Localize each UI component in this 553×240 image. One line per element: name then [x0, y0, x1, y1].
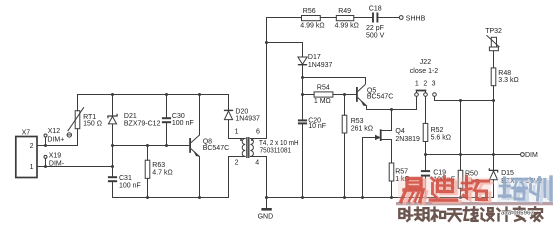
svg-text:150 Ω: 150 Ω [83, 120, 102, 127]
svg-text:2: 2 [235, 159, 239, 166]
node R63 base line [146, 144, 149, 147]
wire R49-C18 [354, 17, 372, 19]
wire J22 pin2 down to R52 [425, 96, 427, 123]
svg-text:1N4937: 1N4937 [308, 62, 333, 69]
wire GND rail left segment [113, 157, 229, 198]
node GND stem [265, 196, 268, 199]
resistor R52 [423, 123, 428, 141]
node R50 bus [459, 99, 462, 102]
wire C19 stem top [425, 155, 427, 171]
wire R50 bottom to GND rail [460, 188, 462, 197]
wire C18-SHHB terminal [378, 17, 399, 19]
wire DIM+ from X7 to RT1 [37, 129, 78, 146]
watermark big characters 培训 blue [500, 177, 552, 200]
svg-text:22 pF: 22 pF [366, 25, 384, 32]
node R48 bottom [492, 99, 495, 102]
ground symbol [261, 208, 271, 211]
svg-text:BC547C: BC547C [367, 94, 393, 101]
wire Q8 emitter to rail [199, 157, 201, 198]
capacitor C18 [373, 13, 377, 23]
wire R56-R49 [320, 17, 336, 19]
wire T4 pin6 stub [250, 138, 266, 140]
wire DIM- from X7 to C31 node [37, 166, 113, 168]
svg-text:1: 1 [30, 164, 34, 171]
svg-text:DIM+: DIM+ [47, 137, 64, 144]
svg-text:TP32: TP32 [485, 28, 502, 35]
resistor R53 [342, 115, 347, 133]
wire Q8 collector to top rail [199, 95, 201, 136]
svg-text:1 MΩ: 1 MΩ [314, 98, 331, 105]
svg-text:T4, 2 x 10 mH: T4, 2 x 10 mH [259, 140, 299, 147]
watermark wash [398, 178, 491, 203]
svg-text:100 nF: 100 nF [172, 120, 194, 127]
node D15 top [492, 153, 495, 156]
node R50 DIM line [459, 153, 462, 156]
svg-text:C18: C18 [369, 6, 382, 13]
resistor R50 [458, 170, 463, 188]
wire C30 bottom to base line [166, 123, 168, 145]
svg-text:10 nF: 10 nF [308, 123, 326, 130]
svg-text:1: 1 [235, 129, 239, 136]
svg-text:4.99 kΩ: 4.99 kΩ [300, 22, 324, 29]
transistor Q4 2N3819 [376, 129, 381, 141]
svg-text:4: 4 [255, 159, 259, 166]
wire R53 stem bottom to GND rail [344, 133, 346, 198]
wire TP32 to R48 [493, 51, 495, 68]
svg-text:2: 2 [30, 143, 34, 150]
jumper J22 [415, 91, 437, 97]
resistor R57 [389, 163, 394, 181]
node Q5 base [343, 93, 346, 96]
svg-text:C31: C31 [119, 175, 132, 182]
svg-text:close 1-2: close 1-2 [410, 68, 439, 75]
node Q4 drain [390, 108, 393, 111]
svg-text:261 kΩ: 261 kΩ [351, 126, 373, 133]
svg-text:R56: R56 [303, 8, 316, 15]
svg-text:4.99 kΩ: 4.99 kΩ [335, 22, 359, 29]
wire D15 bottom to GND rail [493, 180, 495, 198]
wire GND rail right segment [267, 157, 494, 198]
wire RT1 top to top-left rail [78, 95, 229, 111]
wire T4 pin1 stub [229, 138, 246, 140]
svg-text:5.6 kΩ: 5.6 kΩ [431, 135, 451, 142]
svg-text:D15: D15 [501, 170, 514, 177]
diode D20 [224, 110, 233, 119]
watermark slogan row [399, 207, 542, 221]
wire branch to D17 [267, 43, 303, 58]
node C19 rail [424, 196, 427, 199]
wire R53 stem top [344, 95, 346, 116]
node C30 top rail [165, 93, 168, 96]
terminal SHHB [399, 16, 403, 20]
node R50 rail [459, 196, 462, 199]
thermistor RT1 [67, 107, 84, 137]
capacitor C31 [108, 177, 117, 181]
node Q8 collector rail [198, 93, 201, 96]
svg-text:R53: R53 [351, 118, 364, 125]
terminal X19 [44, 155, 47, 158]
node C20 rail [301, 196, 304, 199]
svg-text:2N3819: 2N3819 [395, 136, 420, 143]
svg-text:BZX79-C12: BZX79-C12 [124, 121, 161, 128]
terminal X12 [44, 134, 47, 137]
wire R63 stem top [147, 146, 149, 161]
watermark band [396, 202, 553, 205]
wire T4 pin2 stub [229, 156, 246, 158]
node R57 rail [390, 196, 393, 199]
resistor R63 [145, 160, 150, 178]
svg-text:R54: R54 [317, 84, 330, 91]
wire R57 bottom to GND rail [391, 181, 393, 198]
node DIM- C31 [111, 165, 114, 168]
diode D17 [298, 57, 307, 65]
wire R50 vertical bus to body [460, 101, 462, 171]
node secondary top branch [265, 41, 268, 44]
svg-text:SHHB: SHHB [406, 15, 426, 22]
wire GND stem [266, 198, 268, 209]
watermark big character shadows [405, 179, 493, 204]
node Q4 gate rail [361, 196, 364, 199]
svg-text:3: 3 [432, 80, 436, 87]
connector X7 [16, 137, 37, 178]
resistor R49 [336, 16, 354, 21]
node Q8 emitter rail [198, 196, 201, 199]
wire R52 bottom to DIM line [425, 142, 427, 155]
terminal DIM [521, 153, 525, 157]
wire Q5 collector line [303, 78, 366, 82]
svg-text:D21: D21 [124, 113, 137, 120]
watermark big characters 易迪拓 red [401, 177, 489, 202]
wire R54 left stub [303, 94, 315, 96]
svg-text:X12: X12 [48, 128, 61, 135]
svg-text:1N4937: 1N4937 [235, 115, 260, 122]
transformer T4 [240, 137, 253, 158]
svg-text:2: 2 [423, 80, 427, 87]
node Q5 collector [301, 76, 304, 79]
testpoint TP32 [487, 35, 500, 51]
wire base line D21 to Q8 [113, 145, 190, 147]
svg-text:4.7 kΩ: 4.7 kΩ [152, 169, 172, 176]
wire C19 bottom to GND rail [425, 177, 427, 198]
svg-text:R49: R49 [338, 8, 351, 15]
svg-text:D17: D17 [308, 54, 321, 61]
wire C20 bottom to GND rail [302, 124, 304, 197]
wire T4 pin4 stub [250, 156, 266, 158]
svg-text:1: 1 [415, 80, 419, 87]
wire D21 bottom through base line and DIM- to C31 [112, 124, 114, 176]
node D21 top rail [111, 93, 114, 96]
svg-text:750311081: 750311081 [260, 148, 292, 155]
wire X19 stub [45, 158, 47, 166]
wire J22 pin3 to bus [435, 96, 494, 100]
wire Q5 emitter line to J22 pin1 [367, 96, 417, 109]
wire D17 cathode down through nodes to C20 [302, 65, 304, 119]
node X12 [44, 144, 47, 147]
svg-text:100 nF: 100 nF [119, 183, 141, 190]
zener diode D21 [108, 114, 117, 124]
node C30 base line [165, 144, 168, 147]
svg-text:R63: R63 [152, 162, 165, 169]
node D21 base line [111, 144, 114, 147]
wire Q4 source to R57 [382, 140, 392, 164]
svg-text:500 V: 500 V [366, 33, 385, 40]
node R52 bottom [424, 153, 427, 156]
svg-text:aaa-005963: aaa-005963 [501, 211, 534, 217]
resistor R56 [302, 16, 321, 21]
capacitor C20 [298, 120, 307, 123]
svg-text:Q4: Q4 [395, 128, 404, 135]
svg-text:DIM-: DIM- [49, 161, 65, 168]
svg-text:GND: GND [258, 213, 274, 220]
wire Q4 drain stub [382, 110, 392, 131]
node R54 left [301, 93, 304, 96]
node R63 rail [146, 196, 149, 199]
node X19 [44, 165, 47, 168]
wire R48 bottom through bus to D15 [493, 86, 495, 171]
wire top rail to R56 R49 C18 [267, 18, 302, 139]
svg-text:C30: C30 [172, 113, 185, 120]
svg-text:BC547C: BC547C [203, 145, 229, 152]
zener diode D15 [489, 168, 497, 180]
svg-text:X7: X7 [22, 130, 31, 137]
wire DIM line [426, 154, 521, 156]
transistor Q8 BC547C [190, 135, 199, 157]
svg-text:6: 6 [256, 129, 260, 136]
wire C31 bottom to rail corner [112, 182, 114, 197]
capacitor C19 [421, 171, 430, 176]
wire R63 bottom to rail [147, 178, 149, 197]
transistor Q5 BC547C [357, 78, 367, 110]
resistor R54 [314, 92, 333, 97]
resistor R48 [491, 68, 496, 86]
svg-text:R48: R48 [498, 70, 511, 77]
wire D21 stem top [112, 95, 114, 116]
svg-text:J22: J22 [420, 59, 431, 66]
svg-text:3.3 kΩ: 3.3 kΩ [498, 77, 518, 84]
wire C30 stem from top rail [166, 95, 168, 118]
svg-text:DIM: DIM [525, 152, 538, 159]
node R53 rail [343, 196, 346, 199]
svg-text:X19: X19 [49, 153, 62, 160]
wire Q4 gate to GND rail [363, 138, 380, 198]
svg-text:R57: R57 [395, 169, 408, 176]
svg-text:R52: R52 [431, 127, 444, 134]
wire X12 stub [45, 137, 47, 146]
capacitor C30 [162, 118, 171, 122]
wire D20 anode to T4 pin1 [228, 120, 230, 139]
wire R54 right to Q5 base [333, 94, 356, 96]
